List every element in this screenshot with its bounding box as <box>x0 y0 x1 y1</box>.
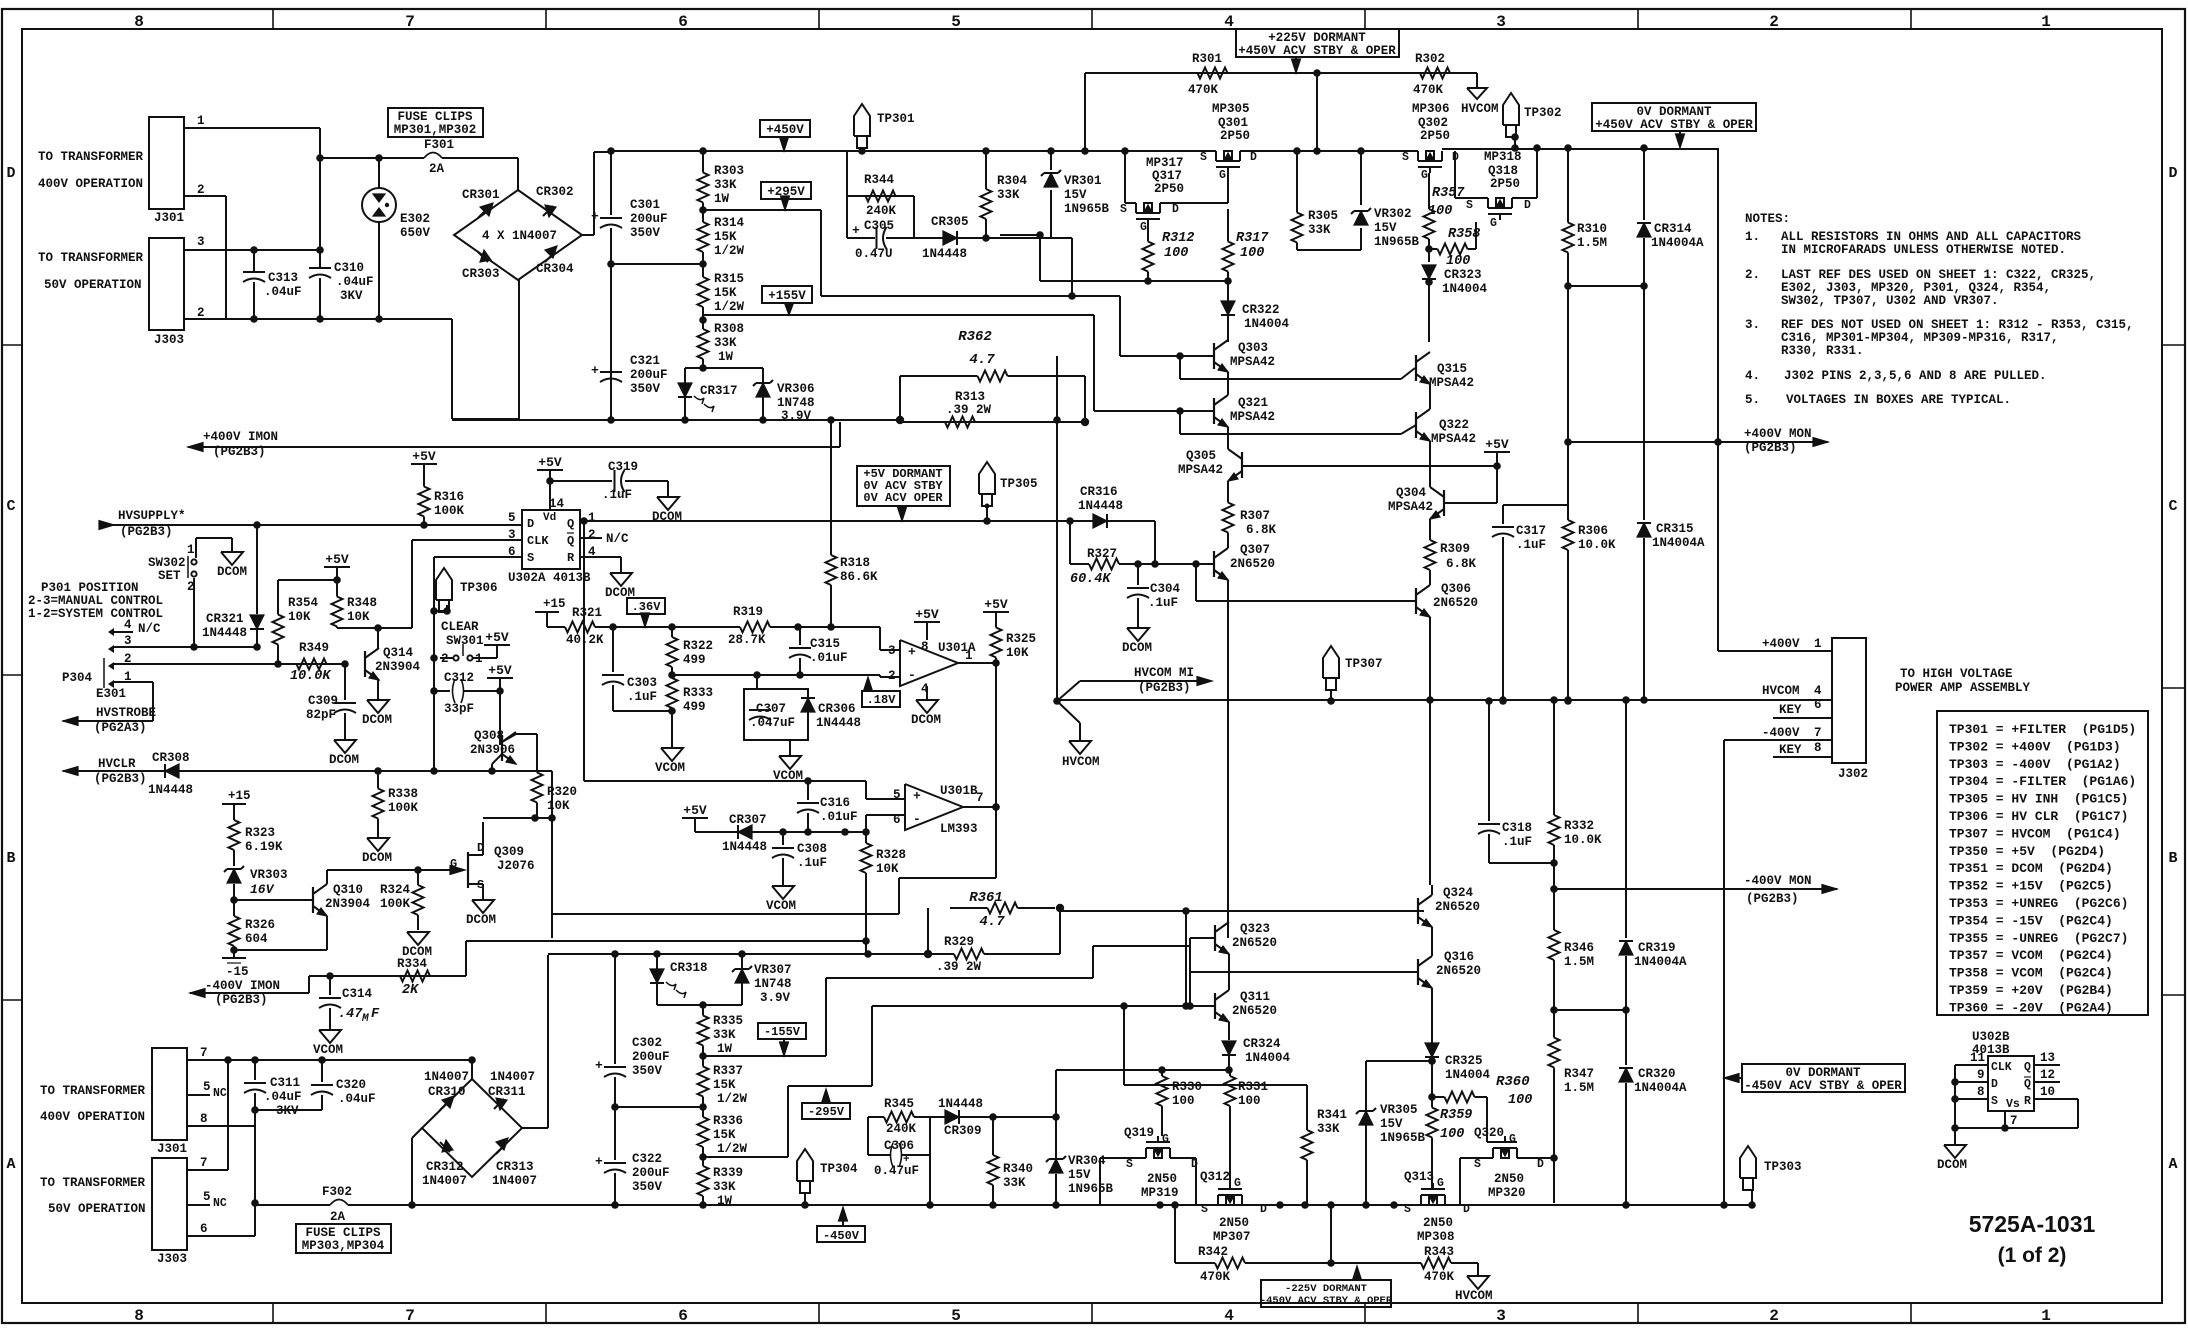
wire C311/C320 bottom tie <box>255 1109 322 1111</box>
diode CR301 <box>480 203 493 216</box>
capacitor C316 <box>807 781 809 800</box>
svg-text:R343: R343 <box>1424 1245 1454 1259</box>
svg-text:5: 5 <box>951 13 961 31</box>
resistor R343 <box>1357 1262 1410 1264</box>
svg-text:2N6520: 2N6520 <box>1232 936 1277 950</box>
svg-text:10K: 10K <box>347 610 370 624</box>
svg-text:4.7: 4.7 <box>979 914 1005 930</box>
svg-text:TO TRANSFORMER: TO TRANSFORMER <box>38 251 144 265</box>
svg-text:3: 3 <box>124 634 132 648</box>
svg-text:CR323: CR323 <box>1444 268 1482 282</box>
svg-text:(PG2B3): (PG2B3) <box>120 525 173 539</box>
svg-text:C310: C310 <box>334 261 364 275</box>
wire Q324/Q316 column <box>1431 927 1433 956</box>
svg-text:TP307 = HVCOM (PG1C4): TP307 = HVCOM (PG1C4) <box>1949 826 2121 841</box>
wire SW302 throw down <box>193 578 195 647</box>
svg-text:SW301: SW301 <box>446 634 484 648</box>
svg-text:100: 100 <box>1440 1127 1464 1142</box>
svg-text:R305: R305 <box>1308 209 1338 223</box>
svg-text:J301: J301 <box>154 211 184 225</box>
capacitor C313 <box>253 250 255 272</box>
svg-text:POWER AMP ASSEMBLY: POWER AMP ASSEMBLY <box>1895 681 2031 695</box>
svg-text:TP305: TP305 <box>1000 477 1038 491</box>
svg-text:-: - <box>913 812 921 827</box>
svg-text:D: D <box>527 517 534 531</box>
svg-text:4.7: 4.7 <box>969 352 995 368</box>
svg-text:CR315: CR315 <box>1656 522 1694 536</box>
svg-text:1N4004A: 1N4004A <box>1634 955 1687 969</box>
resistor R314 <box>702 210 704 222</box>
wire -450V rail <box>412 1204 1630 1206</box>
svg-text:7: 7 <box>1814 726 1822 740</box>
resistor R302 <box>1405 72 1420 74</box>
svg-text:M: M <box>361 1013 369 1025</box>
svg-text:A: A <box>2168 1156 2177 1173</box>
svg-text:650V: 650V <box>400 226 431 240</box>
svg-text:CR316: CR316 <box>1080 485 1118 499</box>
svg-text:6.19K: 6.19K <box>245 840 283 854</box>
wire pin2 N/C stub <box>580 537 602 539</box>
svg-text:-15: -15 <box>226 965 249 979</box>
svg-text:MP308: MP308 <box>1417 1230 1455 1244</box>
capacitor C309 <box>344 664 346 700</box>
svg-text:100: 100 <box>1428 204 1452 219</box>
box FUSE CLIPS MP303,MP304 <box>296 1224 391 1253</box>
svg-text:R346: R346 <box>1564 941 1594 955</box>
svg-text:Q: Q <box>2024 1078 2031 1091</box>
svg-text:R337: R337 <box>713 1064 743 1078</box>
svg-text:R322: R322 <box>683 639 713 653</box>
svg-text:R: R <box>567 551 575 565</box>
svg-text:33K: 33K <box>1003 1176 1026 1190</box>
ground DCOM at R324 <box>407 932 429 945</box>
wire +400V pin1 <box>1718 650 1832 652</box>
svg-text:R341: R341 <box>1317 1108 1347 1122</box>
svg-text:FUSE CLIPS: FUSE CLIPS <box>305 1226 381 1240</box>
wire Q321 base net <box>1094 410 1214 412</box>
svg-text:C: C <box>6 498 15 515</box>
svg-text:+: + <box>908 645 916 660</box>
svg-text:+5V: +5V <box>984 597 1008 612</box>
svg-text:.39 2W: .39 2W <box>936 960 982 974</box>
svg-text:TP355 = -UNREG (PG2C7): TP355 = -UNREG (PG2C7) <box>1949 931 2128 946</box>
wire Q321 emitter down to Q305 <box>1227 427 1229 449</box>
wire output vertical <box>995 663 997 878</box>
svg-text:+5V: +5V <box>683 803 707 818</box>
svg-text:1N4004: 1N4004 <box>1442 282 1488 296</box>
svg-text:1N4448: 1N4448 <box>202 626 247 640</box>
svg-text:.04uF: .04uF <box>338 1092 376 1106</box>
svg-text:33K: 33K <box>713 1028 736 1042</box>
svg-text:33K: 33K <box>714 178 737 192</box>
wire HVCOM vertical main <box>1056 420 1058 701</box>
wire Q322 emitter down <box>1429 441 1431 450</box>
svg-text:R344: R344 <box>864 173 895 187</box>
svg-text:10.0K: 10.0K <box>1578 538 1616 552</box>
svg-text:(1 of 2): (1 of 2) <box>1998 1244 2067 1267</box>
svg-text:2: 2 <box>888 669 896 683</box>
svg-text:G: G <box>1219 169 1226 182</box>
testpoint TP302 <box>1503 93 1519 125</box>
svg-text:3: 3 <box>888 644 896 658</box>
svg-text:2: 2 <box>197 183 205 197</box>
svg-text:86.6K: 86.6K <box>840 570 878 584</box>
wire Q324 base line <box>1182 907 1190 915</box>
svg-text:R357: R357 <box>1432 186 1465 201</box>
svg-text:+5V: +5V <box>485 630 509 645</box>
svg-text:400V OPERATION: 400V OPERATION <box>38 177 143 191</box>
svg-text:MP306: MP306 <box>1412 102 1450 116</box>
svg-text:3.9V: 3.9V <box>760 991 791 1005</box>
resistor R331 <box>1229 1070 1231 1076</box>
svg-text:CLK: CLK <box>1991 1061 2012 1074</box>
wire Q311 emitter down to CR324 <box>1228 1022 1230 1040</box>
box +295V <box>761 182 811 199</box>
wire +155V rail <box>703 314 1094 316</box>
wire +450V rail <box>611 150 1216 152</box>
svg-text:10.0K: 10.0K <box>1564 833 1602 847</box>
svg-text:33K: 33K <box>1308 223 1331 237</box>
ground DCOM at C319 <box>667 481 669 497</box>
svg-text:S: S <box>1404 1203 1411 1216</box>
svg-text:D: D <box>1250 151 1257 164</box>
diode CR312 <box>442 1140 453 1152</box>
svg-text:(PG2B3): (PG2B3) <box>213 445 266 459</box>
svg-text:R325: R325 <box>1006 632 1036 646</box>
svg-text:1N965B: 1N965B <box>1374 235 1420 249</box>
svg-text:+5V: +5V <box>325 552 349 567</box>
svg-text:10K: 10K <box>1006 646 1029 660</box>
svg-text:-: - <box>908 668 916 683</box>
svg-text:-295V: -295V <box>808 1105 845 1119</box>
svg-text:VR302: VR302 <box>1374 207 1412 221</box>
svg-text:Q: Q <box>567 517 574 531</box>
svg-text:82pF: 82pF <box>306 708 336 722</box>
svg-text:.01uF: .01uF <box>820 810 858 824</box>
svg-text:1N748: 1N748 <box>754 977 792 991</box>
svg-text:D: D <box>1524 199 1531 212</box>
svg-text:+5V: +5V <box>538 455 562 470</box>
svg-text:G: G <box>1490 217 1497 230</box>
svg-text:8: 8 <box>1977 1085 1985 1099</box>
svg-text:(PG2B3): (PG2B3) <box>1744 441 1797 455</box>
wire HVSUPPLY line <box>99 521 114 530</box>
svg-text:+5V: +5V <box>488 663 512 678</box>
wire Q314 emitter to DCOM <box>377 680 379 700</box>
svg-text:Vd: Vd <box>543 512 556 524</box>
svg-text:LAST REF DES USED ON SHEET 1:: LAST REF DES USED ON SHEET 1: C322, CR32… <box>1781 268 2096 282</box>
svg-text:8: 8 <box>1814 741 1822 755</box>
svg-text:C301: C301 <box>630 198 660 212</box>
resistor R330 <box>1161 1070 1163 1076</box>
svg-text:R307: R307 <box>1240 509 1270 523</box>
svg-text:1W: 1W <box>714 192 730 206</box>
svg-text:8: 8 <box>134 1307 144 1325</box>
svg-text:FUSE CLIPS: FUSE CLIPS <box>397 110 473 124</box>
svg-text:33K: 33K <box>714 336 737 350</box>
ground DCOM at R338 <box>377 822 379 838</box>
wire Q307 emitter routing <box>1214 570 1228 580</box>
svg-text:+5V: +5V <box>1485 437 1509 452</box>
resistor R339 <box>702 1157 704 1166</box>
box +450V <box>760 120 810 137</box>
diode CR302 <box>545 205 556 217</box>
zone ticks right <box>2162 344 2185 346</box>
diode CR303 <box>480 250 491 262</box>
ground VCOM below C314 <box>319 1030 341 1043</box>
svg-text:5: 5 <box>203 1190 211 1204</box>
svg-text:15V: 15V <box>1064 188 1087 202</box>
svg-text:VR306: VR306 <box>777 382 815 396</box>
svg-text:TP303 = -400V (PG1A2): TP303 = -400V (PG1A2) <box>1949 757 2121 772</box>
svg-text:Q324: Q324 <box>1443 886 1474 900</box>
svg-text:D: D <box>1991 1078 1998 1091</box>
TP table box <box>1937 711 2148 1015</box>
svg-text:Q312: Q312 <box>1200 1170 1230 1184</box>
svg-text:2N3904: 2N3904 <box>375 660 421 674</box>
svg-text:CR325: CR325 <box>1445 1054 1483 1068</box>
diode CR308 <box>165 764 179 778</box>
svg-text:(PG2B3): (PG2B3) <box>1138 681 1191 695</box>
svg-text:TP359 = +20V (PG2B4): TP359 = +20V (PG2B4) <box>1949 983 2113 998</box>
svg-text:60.4K: 60.4K <box>1070 572 1112 587</box>
svg-text:100: 100 <box>1238 1094 1261 1108</box>
svg-text:R361: R361 <box>969 890 1003 906</box>
diode CR309 <box>930 1116 993 1118</box>
testpoint TP307 <box>1323 646 1339 678</box>
svg-text:TP304: TP304 <box>820 1162 858 1176</box>
wire R342 to -225V node <box>1285 1262 1357 1264</box>
resistor R307 <box>1227 500 1229 503</box>
svg-text:(PG2B3): (PG2B3) <box>1746 892 1799 906</box>
wire -400V pin7 <box>1724 739 1832 741</box>
+5V rail at Q322 <box>1484 451 1510 453</box>
svg-text:CR308: CR308 <box>152 751 190 765</box>
svg-text:CR324: CR324 <box>1243 1037 1281 1051</box>
wire Q309 drain to node <box>483 817 535 819</box>
wire R348 bottom to CLK net <box>337 627 412 629</box>
svg-text:HVSTROBE: HVSTROBE <box>96 706 156 720</box>
svg-text:0V DORMANT: 0V DORMANT <box>1785 1066 1861 1080</box>
diode CR315 <box>1643 286 1645 520</box>
svg-text:499: 499 <box>683 700 706 714</box>
wire opamp- input net <box>672 674 880 676</box>
svg-text:11: 11 <box>1970 1051 1985 1065</box>
svg-text:CR318: CR318 <box>670 961 708 975</box>
capacitor C314 <box>329 976 331 995</box>
testpoint TP305 <box>979 462 995 494</box>
wire C302/C322 mid tie <box>615 1106 703 1108</box>
svg-text:HVCOM: HVCOM <box>1762 684 1800 698</box>
svg-text:R304: R304 <box>997 174 1028 188</box>
svg-text:R362: R362 <box>958 329 992 345</box>
svg-text:1: 1 <box>1814 637 1822 651</box>
wire R341 top to -295V net <box>1123 1006 1125 1085</box>
capacitor C302 <box>614 954 616 1064</box>
svg-text:C: C <box>2168 498 2177 515</box>
svg-text:DCOM: DCOM <box>911 713 941 727</box>
svg-text:240K: 240K <box>866 204 897 218</box>
svg-text:6.8K: 6.8K <box>1246 523 1277 537</box>
svg-text:7: 7 <box>200 1156 208 1170</box>
transistor Q304 <box>1443 490 1445 516</box>
wire HVCOM node branch <box>1053 697 1061 705</box>
svg-text:Q309: Q309 <box>494 845 524 859</box>
svg-text:1N4004A: 1N4004A <box>1652 536 1705 550</box>
wire R334 net y=941 <box>466 940 866 942</box>
svg-text:J303: J303 <box>154 333 184 347</box>
ground DCOM at C309 <box>334 740 356 753</box>
wire Q310 emitter <box>326 916 328 950</box>
resistor R341 <box>1306 1085 1308 1125</box>
svg-text:2N6520: 2N6520 <box>1436 964 1481 978</box>
svg-text:1: 1 <box>965 649 973 663</box>
svg-text:-225V DORMANT: -225V DORMANT <box>1285 1283 1367 1295</box>
capacitor C311 <box>254 1060 256 1080</box>
wire Q310 collector to gate line <box>326 870 328 884</box>
svg-text:1.5M: 1.5M <box>1564 1081 1594 1095</box>
transistor Q316 <box>1417 959 1419 985</box>
svg-text:D: D <box>1260 1203 1267 1216</box>
svg-text:10K: 10K <box>288 610 311 624</box>
svg-text:C307: C307 <box>756 702 786 716</box>
svg-text:14: 14 <box>549 497 565 511</box>
svg-text:200uF: 200uF <box>630 212 668 226</box>
wire Q314 collector <box>377 628 379 648</box>
svg-text:Q: Q <box>2024 1061 2031 1074</box>
svg-text:2: 2 <box>197 306 205 320</box>
svg-text:R310: R310 <box>1577 222 1607 236</box>
svg-text:0.47uF: 0.47uF <box>874 1164 919 1178</box>
box .18V <box>862 691 900 707</box>
svg-text:S: S <box>1200 151 1207 164</box>
wire D pin5 <box>424 524 522 526</box>
svg-text:100K: 100K <box>388 801 419 815</box>
svg-text:5.: 5. <box>1745 393 1760 407</box>
svg-text:1/2W: 1/2W <box>717 1092 748 1106</box>
svg-text:28.7K: 28.7K <box>728 633 766 647</box>
svg-text:2N6520: 2N6520 <box>1232 1004 1277 1018</box>
svg-text:SW302: SW302 <box>148 556 186 570</box>
wire bridge right to 955 rail <box>522 1127 548 1129</box>
svg-text:CR309: CR309 <box>944 1124 982 1138</box>
svg-text:4: 4 <box>1224 13 1234 31</box>
svg-text:+5V: +5V <box>915 607 939 622</box>
svg-text:2P50: 2P50 <box>1220 129 1250 143</box>
svg-text:0V ACV OPER: 0V ACV OPER <box>863 491 943 505</box>
svg-text:E302, J303, MP320, P301, Q324,: E302, J303, MP320, P301, Q324, R354, <box>1781 281 2051 295</box>
svg-text:3: 3 <box>1496 1307 1506 1325</box>
svg-text:4 X 1N4007: 4 X 1N4007 <box>482 229 557 243</box>
svg-text:Q310: Q310 <box>333 883 363 897</box>
svg-text:350V: 350V <box>630 382 661 396</box>
svg-text:C305: C305 <box>864 219 894 233</box>
svg-text:J302 PINS 2,3,5,6 AND 8 ARE PU: J302 PINS 2,3,5,6 AND 8 ARE PULLED. <box>1784 369 2047 383</box>
wire Q305 base to +5V line <box>1242 465 1497 467</box>
svg-text:G: G <box>1509 1133 1516 1146</box>
svg-text:VCOM: VCOM <box>313 1043 343 1057</box>
box -295V <box>802 1103 850 1119</box>
svg-text:DCOM: DCOM <box>1122 641 1152 655</box>
svg-text:+: + <box>595 1058 603 1073</box>
svg-text:E302: E302 <box>400 212 430 226</box>
svg-text:2N6520: 2N6520 <box>1230 557 1275 571</box>
svg-text:0V DORMANT: 0V DORMANT <box>1636 105 1712 119</box>
wire U302B pin8 <box>1955 1098 1988 1100</box>
svg-text:G: G <box>1140 221 1147 234</box>
svg-text:470K: 470K <box>1188 83 1219 97</box>
svg-text:G: G <box>1162 1133 1169 1146</box>
wire Q308 collector to R320 <box>502 734 516 742</box>
svg-text:MPSA42: MPSA42 <box>1429 376 1474 390</box>
svg-text:R342: R342 <box>1198 1245 1228 1259</box>
svg-text:R336: R336 <box>713 1114 743 1128</box>
svg-text:1N4007: 1N4007 <box>424 1070 469 1084</box>
svg-text:+400V MON: +400V MON <box>1744 427 1812 441</box>
capacitor C321 <box>600 371 622 373</box>
connector J301 (lower) <box>152 1048 187 1140</box>
wire VR301 bottom to +295V net <box>1071 238 1073 296</box>
svg-text:1-2=SYSTEM CONTROL: 1-2=SYSTEM CONTROL <box>28 607 163 621</box>
svg-text:R330: R330 <box>1172 1080 1202 1094</box>
svg-text:R328: R328 <box>876 848 906 862</box>
svg-text:0.47U: 0.47U <box>855 247 893 261</box>
zener VR303 <box>233 855 235 866</box>
svg-text:Q311: Q311 <box>1240 990 1270 1004</box>
svg-text:5: 5 <box>203 1080 211 1094</box>
wire Q303 base net <box>1120 355 1214 357</box>
resistor R316 <box>411 463 437 465</box>
svg-text:604: 604 <box>245 932 268 946</box>
wire TP306 vertical to HVCLR <box>433 658 435 771</box>
svg-text:1W: 1W <box>717 1042 733 1056</box>
wire -155V net <box>703 1055 826 1057</box>
fuse F301 <box>379 157 424 159</box>
wire E301 to HVSTROBE <box>152 682 154 721</box>
svg-text:TP304 = -FILTER (PG1A6): TP304 = -FILTER (PG1A6) <box>1949 774 2136 789</box>
svg-text:2P50: 2P50 <box>1154 182 1184 196</box>
svg-text:R354: R354 <box>288 596 319 610</box>
capacitor C317 <box>1502 505 1504 524</box>
resistor R344 / capacitor C305 loop <box>847 195 914 197</box>
svg-text:+155V: +155V <box>768 289 806 303</box>
svg-text:TP306 = HV CLR (PG1C7): TP306 = HV CLR (PG1C7) <box>1949 809 2128 824</box>
svg-text:C314: C314 <box>342 987 373 1001</box>
transistor Q318 MOSFET MP318 <box>1455 197 1488 199</box>
svg-text:SW302, TP307, U302 AND VR307.: SW302, TP307, U302 AND VR307. <box>1781 294 1999 308</box>
svg-text:100: 100 <box>1164 246 1188 261</box>
svg-text:DCOM: DCOM <box>362 851 392 865</box>
svg-text:100K: 100K <box>380 897 411 911</box>
svg-text:100: 100 <box>1508 1093 1532 1108</box>
transistor Q310 <box>230 896 238 904</box>
svg-text:4: 4 <box>124 618 132 632</box>
svg-text:R349: R349 <box>299 641 329 655</box>
svg-text:R345: R345 <box>884 1097 914 1111</box>
svg-text:S: S <box>1402 151 1409 164</box>
wire U301B output <box>963 806 996 808</box>
svg-text:Q319: Q319 <box>1124 1126 1154 1140</box>
svg-text:499: 499 <box>683 653 706 667</box>
svg-text:1: 1 <box>588 511 596 525</box>
transistor Q324 <box>1417 898 1419 924</box>
svg-text:C320: C320 <box>336 1078 366 1092</box>
wire bridge left to F302 <box>412 1128 422 1138</box>
resistor R308 <box>702 320 704 329</box>
svg-text:2A: 2A <box>330 1210 346 1224</box>
svg-text:A: A <box>6 1156 15 1173</box>
svg-text:MPSA42: MPSA42 <box>1431 432 1476 446</box>
